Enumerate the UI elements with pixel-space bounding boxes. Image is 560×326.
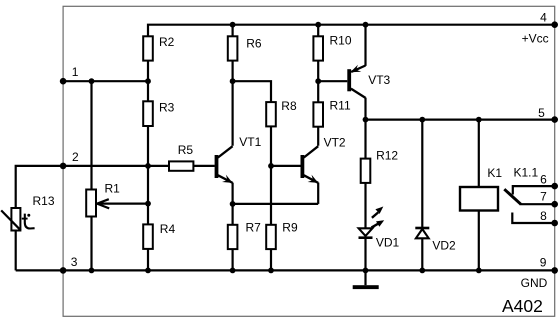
wire K1 coil rail (478, 120, 480, 271)
junction wiper/R3R4 (145, 201, 151, 207)
junction top rail/R10 (315, 22, 321, 28)
node 6 terminal (551, 183, 558, 190)
wire VT3 emitter to +Vcc (364, 25, 366, 66)
svg-text:VT2: VT2 (324, 136, 346, 150)
wire contact 7 line (520, 203, 555, 205)
junction top rail/R6 (230, 22, 236, 28)
wire VT1 collector node to R8 (233, 81, 271, 102)
svg-text:R10: R10 (330, 33, 352, 47)
svg-text:R11: R11 (330, 98, 351, 112)
junction line5/K1 (476, 117, 482, 123)
wire contact 6 line (513, 186, 555, 194)
wire R6 / VT1 collector rail (232, 25, 234, 146)
wire common emitter line (233, 203, 319, 205)
svg-text:R6: R6 (246, 37, 262, 51)
contact armature (504, 189, 521, 204)
junction node2/R3R4 (145, 163, 151, 169)
svg-text:R13: R13 (33, 194, 55, 208)
wire bottom bus (node 3 / GND net) (16, 269, 555, 271)
resistor R2 (143, 36, 153, 60)
svg-text:+Vcc: +Vcc (522, 32, 549, 46)
wire R1 wiper (98, 203, 148, 205)
wire VT2 emitter down (317, 183, 319, 204)
wire VT3 collector down (364, 98, 366, 120)
junction bus/VD1 (363, 268, 369, 274)
node 3 terminal (60, 267, 67, 274)
t-degree mark (25, 214, 35, 229)
junction bus/VD2 (419, 268, 425, 274)
junction VT1 collector node (230, 78, 236, 84)
wire left rail (node1 to node3 through R1) (90, 81, 92, 270)
node 7 terminal (551, 201, 558, 208)
wire +Vcc top rail (node 4) (148, 25, 555, 37)
svg-text:VT1: VT1 (239, 135, 261, 149)
node 8 terminal (551, 220, 558, 227)
thermistor R13 (1, 166, 63, 271)
svg-text:R9: R9 (282, 220, 298, 234)
svg-text:R7: R7 (246, 220, 262, 234)
junction line5/R12 (363, 117, 369, 123)
junction bus/left rail (89, 268, 95, 274)
wire R5 to VT1 base (193, 165, 214, 167)
svg-text:R8: R8 (281, 99, 297, 113)
wire R2-R3-R4 rail (147, 36, 149, 270)
svg-text:7: 7 (540, 190, 547, 204)
wire line 5 (366, 118, 555, 120)
resistor R3 (143, 101, 153, 126)
LED VD1 (359, 207, 400, 250)
relay coil K1 (460, 187, 498, 211)
transistor VT3 (349, 65, 390, 98)
svg-text:1: 1 (72, 65, 79, 79)
wire contact 8 line (512, 213, 554, 224)
node 5 terminal (551, 116, 558, 123)
wire VD1 to bus (364, 238, 366, 271)
resistor R12 (361, 159, 371, 183)
potentiometer R1 (86, 190, 96, 217)
wire VT3 base line (318, 80, 347, 82)
svg-text:R12: R12 (376, 149, 398, 163)
node 9 terminal (551, 267, 558, 274)
diode VD2 (415, 228, 456, 253)
svg-text:9: 9 (540, 256, 547, 270)
junction bus/R4 (145, 268, 151, 274)
resistor R11 (313, 102, 323, 126)
svg-text:3: 3 (71, 255, 78, 269)
svg-text:R3: R3 (159, 101, 175, 115)
svg-text:R4: R4 (160, 222, 176, 236)
wire R12-VD1 rail (364, 120, 366, 229)
svg-text:VD1: VD1 (376, 235, 400, 249)
wire R10-R11 rail / VT2 collector (317, 25, 319, 146)
svg-text:5: 5 (538, 106, 545, 120)
transistor VT2 (302, 136, 346, 183)
transistor VT1 (217, 135, 262, 183)
wire node 2 line (63, 165, 169, 167)
resistor R5 (169, 161, 193, 170)
svg-text:6: 6 (540, 172, 547, 186)
junction emitters/R7 (230, 201, 236, 207)
junction VT3 base (315, 78, 321, 84)
resistor R4 (143, 224, 153, 249)
R1 wiper arrowhead (97, 199, 109, 208)
svg-text:2: 2 (72, 150, 79, 164)
svg-text:R2: R2 (159, 35, 175, 49)
node 4 terminal (551, 21, 558, 28)
svg-text:R1: R1 (105, 182, 121, 196)
svg-text:K1: K1 (487, 166, 502, 180)
junction VT2 base (268, 163, 274, 169)
junction top rail/VT3 (363, 22, 369, 28)
wire VT1 emitter down / R7 rail (232, 183, 234, 271)
resistor R7 (228, 225, 238, 249)
svg-text:R5: R5 (178, 143, 194, 157)
svg-text:A402: A402 (502, 296, 543, 316)
wire VD2 rail (421, 120, 423, 271)
svg-text:GND: GND (521, 276, 548, 290)
node 2 terminal (60, 163, 67, 170)
wire node 1 line (63, 80, 148, 82)
svg-text:8: 8 (540, 209, 547, 223)
junction bus/K1 (476, 268, 482, 274)
ground symbol (353, 270, 379, 289)
resistor R10 (313, 36, 323, 60)
svg-text:4: 4 (540, 11, 547, 25)
junction node1/R2R3 (145, 78, 151, 84)
junction line5/VD2 (419, 117, 425, 123)
node 1 terminal (60, 78, 67, 85)
junction node1/left rail (89, 78, 95, 84)
svg-text:VT3: VT3 (368, 73, 390, 87)
wire R8-R9 rail (270, 102, 272, 270)
resistor R8 (266, 102, 276, 126)
wire VT2 base line (271, 165, 301, 167)
junction bus/R7 (230, 268, 236, 274)
resistor R9 (266, 225, 276, 249)
svg-text:K1.1: K1.1 (514, 166, 539, 180)
resistor R6 (228, 36, 238, 60)
svg-text:VD2: VD2 (432, 239, 456, 253)
junction bus/R9 (268, 268, 274, 274)
